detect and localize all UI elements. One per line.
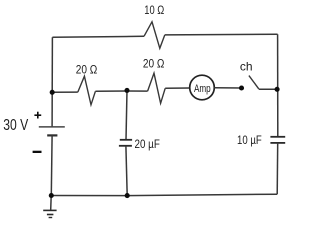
node D junction dot: [275, 87, 280, 92]
node C switch contact dot: [239, 85, 244, 90]
node E junction dot: [49, 193, 54, 198]
resistor R3 20 ohm: [148, 73, 166, 103]
wire right vertical upper: [277, 34, 279, 137]
resistor R2 20 ohm: [78, 76, 96, 105]
wire node A to R2: [52, 91, 78, 93]
wire top-left horizontal: [52, 36, 144, 37]
wire switch to node D: [259, 88, 277, 90]
capacitor C2 10 uF: [270, 137, 285, 143]
wire ammeter to node C: [214, 87, 241, 89]
wire bottom left segment: [51, 195, 127, 197]
wire left vertical upper: [51, 37, 53, 92]
battery V1 minus sign: [33, 151, 42, 153]
wire right vertical lower: [276, 143, 279, 194]
node F junction dot: [125, 193, 130, 198]
wire left vertical mid: [51, 92, 53, 127]
battery V1 plus sign: [34, 112, 41, 119]
node A junction dot: [50, 90, 55, 95]
node B junction dot: [124, 88, 129, 93]
ground stub wire: [50, 196, 53, 210]
svg-text:Amp: Amp: [194, 83, 211, 96]
svg-text:10 Ω: 10 Ω: [144, 4, 164, 17]
svg-text:30 V: 30 V: [3, 116, 28, 134]
wire bottom right segment: [127, 194, 277, 195]
wire node B down to C1: [126, 90, 127, 139]
svg-text:ch: ch: [240, 60, 253, 74]
wire R3 to ammeter: [165, 87, 190, 89]
svg-text:10 µF: 10 µF: [237, 134, 262, 147]
switch S1 blade: [249, 76, 259, 89]
resistor R1 10 ohm: [144, 22, 165, 49]
svg-text:20 µF: 20 µF: [135, 138, 161, 151]
wire R2 to node B: [95, 90, 127, 92]
battery V1 30 V: [39, 127, 65, 135]
svg-text:20 Ω: 20 Ω: [76, 64, 98, 77]
wire C1 down to node F: [126, 146, 127, 196]
ammeter U1 circle: [190, 75, 215, 100]
wire top-right horizontal: [165, 33, 278, 36]
svg-text:20 Ω: 20 Ω: [143, 58, 165, 71]
wire left vertical lower: [50, 135, 53, 195]
capacitor C1 20 uF: [119, 140, 132, 146]
wire node B to R3: [127, 90, 148, 92]
ground symbol: [43, 210, 56, 217]
